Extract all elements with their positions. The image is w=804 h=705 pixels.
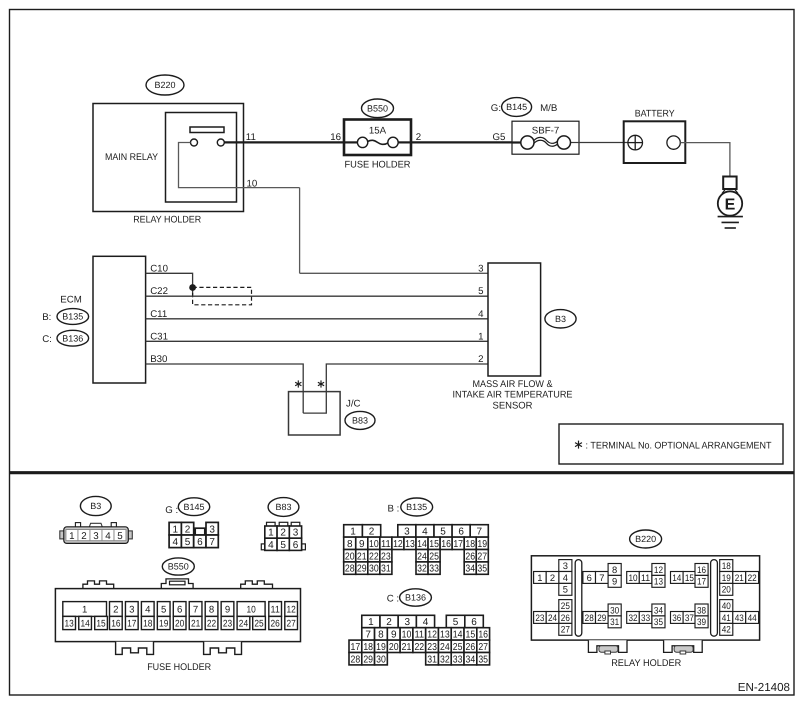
wire battery to ground (680, 143, 730, 177)
connector label B3 (bottom) (80, 496, 111, 515)
svg-text:15: 15 (685, 572, 694, 583)
svg-text:6: 6 (177, 604, 182, 615)
svg-text:23: 23 (427, 642, 437, 653)
svg-text:18: 18 (143, 618, 152, 629)
svg-text:27: 27 (478, 642, 488, 653)
svg-text:29: 29 (363, 654, 373, 665)
svg-text:11: 11 (414, 630, 424, 641)
wire fuse 2 to SBF G5 (thick) (411, 141, 512, 143)
svg-text:2: 2 (280, 528, 286, 539)
svg-text:B :: B : (388, 504, 400, 515)
svg-text:30: 30 (369, 564, 379, 575)
svg-text:11: 11 (641, 572, 650, 583)
svg-text:33: 33 (641, 612, 650, 623)
svg-text:8: 8 (378, 630, 384, 641)
svg-text:19: 19 (159, 618, 168, 629)
svg-text:18: 18 (363, 642, 373, 653)
wire C22 to MAF 5 (146, 295, 488, 297)
svg-text:27: 27 (561, 624, 570, 635)
svg-text:14: 14 (453, 630, 463, 641)
svg-text:12: 12 (427, 630, 437, 641)
svg-text:1: 1 (368, 617, 374, 628)
svg-text:FUSE HOLDER: FUSE HOLDER (345, 160, 411, 171)
svg-text:10: 10 (369, 539, 379, 550)
svg-text:21: 21 (191, 618, 200, 629)
connector label B220 (bottom) (630, 530, 662, 548)
svg-text:21: 21 (357, 551, 367, 562)
svg-text:2: 2 (478, 354, 483, 365)
battery minus terminal (667, 136, 680, 149)
svg-text:5: 5 (161, 604, 166, 615)
svg-text:22: 22 (748, 572, 757, 583)
svg-text:C:: C: (42, 334, 52, 345)
svg-text:3: 3 (209, 524, 215, 535)
svg-text:: TERMINAL No. OPTIONAL ARRANG: : TERMINAL No. OPTIONAL ARRANGEMENT (586, 441, 772, 452)
svg-text:17: 17 (453, 539, 463, 550)
svg-text:16: 16 (441, 539, 451, 550)
svg-text:4: 4 (268, 540, 274, 551)
svg-text:1: 1 (478, 331, 483, 342)
wire B30 to J/C (146, 364, 304, 413)
svg-text:34: 34 (466, 654, 476, 665)
svg-text:16: 16 (330, 132, 341, 143)
svg-text:16: 16 (111, 618, 120, 629)
svg-text:20: 20 (389, 642, 399, 653)
connector B83 drawing (261, 522, 305, 551)
svg-text:24: 24 (548, 612, 557, 623)
svg-text:B550: B550 (367, 104, 388, 114)
svg-text:5: 5 (117, 531, 123, 542)
wire C31 to MAF 1 (146, 340, 488, 342)
svg-text:5: 5 (478, 286, 483, 297)
svg-text:6: 6 (293, 540, 299, 551)
svg-text:36: 36 (672, 612, 681, 623)
svg-text:3: 3 (293, 528, 299, 539)
svg-text:4: 4 (563, 572, 568, 583)
svg-text:3: 3 (404, 617, 410, 628)
svg-text:2: 2 (386, 617, 392, 628)
svg-text:MAIN RELAY: MAIN RELAY (105, 152, 158, 163)
connector label B550 (bottom) (162, 558, 194, 575)
connector label B220 (146, 75, 184, 95)
svg-text:19: 19 (376, 642, 386, 653)
svg-text:26: 26 (561, 612, 570, 623)
wire C11 to MAF 4 (146, 318, 488, 320)
svg-text:26: 26 (271, 618, 280, 629)
svg-text:19: 19 (477, 539, 487, 550)
svg-text:7: 7 (209, 537, 215, 548)
svg-text:26: 26 (466, 642, 476, 653)
svg-text:22: 22 (414, 642, 424, 653)
svg-text:7: 7 (599, 572, 604, 583)
svg-text:1: 1 (537, 572, 542, 583)
svg-text:B136: B136 (405, 593, 426, 603)
svg-text:2: 2 (369, 527, 375, 538)
svg-text:8: 8 (347, 539, 353, 550)
svg-text:C11: C11 (150, 309, 167, 320)
svg-text:3: 3 (404, 527, 410, 538)
svg-text:ECM: ECM (60, 295, 82, 306)
wire relay pin 10 vertical drop (299, 188, 301, 274)
svg-text:9: 9 (612, 576, 617, 587)
svg-text:34: 34 (465, 564, 475, 575)
svg-text:11: 11 (271, 604, 280, 615)
battery plus terminal (628, 135, 643, 150)
svg-text:4: 4 (105, 531, 111, 542)
svg-text:35: 35 (654, 616, 663, 627)
svg-text:35: 35 (477, 564, 487, 575)
svg-text:25: 25 (429, 551, 439, 562)
svg-text:FUSE HOLDER: FUSE HOLDER (147, 662, 211, 673)
relay contact right (217, 139, 224, 146)
svg-text:31: 31 (427, 654, 437, 665)
svg-text:30: 30 (610, 604, 619, 615)
main relay U1 box (166, 113, 237, 203)
junction dot (189, 284, 196, 291)
svg-text:44: 44 (748, 612, 757, 623)
ECM box (93, 256, 146, 383)
svg-text:7: 7 (476, 527, 482, 538)
svg-text:RELAY HOLDER: RELAY HOLDER (611, 658, 681, 669)
svg-text:M/B: M/B (540, 103, 557, 114)
svg-text:C22: C22 (150, 286, 168, 297)
svg-text:G :: G : (165, 505, 178, 516)
fuse holder B550 drawing (55, 579, 300, 655)
fuse symbol 15A (344, 141, 357, 143)
svg-text:25: 25 (254, 618, 263, 629)
svg-text:22: 22 (369, 551, 379, 562)
SBF-7 fuse box (512, 121, 579, 154)
svg-text:5: 5 (280, 540, 286, 551)
svg-text:6: 6 (587, 572, 592, 583)
svg-text:32: 32 (440, 654, 450, 665)
svg-text:11: 11 (381, 539, 391, 550)
svg-text:5: 5 (440, 527, 446, 538)
svg-text:27: 27 (287, 618, 296, 629)
svg-text:C :: C : (387, 594, 399, 605)
svg-text:11: 11 (246, 132, 256, 143)
svg-text:27: 27 (477, 551, 487, 562)
svg-text:5: 5 (185, 537, 191, 548)
svg-text:43: 43 (735, 612, 744, 623)
svg-text:SENSOR: SENSOR (493, 400, 533, 411)
svg-text:BATTERY: BATTERY (635, 109, 675, 120)
svg-text:18: 18 (722, 560, 731, 571)
svg-text:G5: G5 (493, 132, 506, 143)
svg-text:13: 13 (440, 630, 450, 641)
svg-text:1: 1 (268, 528, 274, 539)
svg-text:29: 29 (357, 564, 367, 575)
svg-text:1: 1 (82, 604, 87, 615)
svg-text:13: 13 (654, 576, 663, 587)
svg-text:B145: B145 (183, 502, 204, 512)
svg-text:13: 13 (65, 618, 74, 629)
svg-text:C31: C31 (150, 331, 168, 342)
svg-text:14: 14 (672, 572, 681, 583)
svg-text:28: 28 (345, 564, 355, 575)
svg-text:J/C: J/C (346, 399, 361, 410)
svg-text:B135: B135 (62, 312, 83, 322)
svg-text:23: 23 (535, 612, 544, 623)
relay coil (190, 127, 224, 133)
svg-text:33: 33 (453, 654, 463, 665)
svg-text:B:: B: (42, 312, 51, 323)
svg-text:10: 10 (247, 178, 258, 189)
svg-text:3: 3 (129, 604, 134, 615)
svg-text:31: 31 (381, 564, 391, 575)
connector label B83 (345, 411, 375, 429)
svg-text:35: 35 (478, 654, 488, 665)
svg-text:28: 28 (585, 612, 594, 623)
svg-text:20: 20 (345, 551, 355, 562)
svg-text:32: 32 (628, 612, 637, 623)
svg-text:5: 5 (453, 617, 459, 628)
svg-text:4: 4 (422, 527, 428, 538)
svg-text:3: 3 (93, 531, 99, 542)
svg-text:7: 7 (193, 604, 198, 615)
connector label B83 (bottom) (268, 498, 299, 517)
svg-text:24: 24 (417, 551, 427, 562)
svg-text:2: 2 (550, 572, 555, 583)
svg-text:RELAY HOLDER: RELAY HOLDER (133, 215, 201, 226)
svg-text:31: 31 (610, 616, 619, 627)
svg-text:42: 42 (722, 624, 731, 635)
svg-text:3: 3 (478, 263, 483, 274)
svg-text:INTAKE AIR TEMPERATURE: INTAKE AIR TEMPERATURE (453, 389, 574, 400)
wire relay pin 10 internal (179, 143, 300, 188)
asterisk terminal marks (297, 380, 299, 387)
svg-text:20: 20 (175, 618, 184, 629)
svg-text:7: 7 (365, 630, 371, 641)
svg-text:SBF-7: SBF-7 (532, 126, 559, 137)
svg-text:15A: 15A (369, 125, 387, 136)
svg-text:EN-21408: EN-21408 (738, 681, 790, 694)
svg-text:B83: B83 (275, 502, 291, 512)
svg-text:29: 29 (597, 612, 606, 623)
svg-text:4: 4 (423, 617, 429, 628)
svg-text:28: 28 (351, 654, 361, 665)
svg-text:B3: B3 (90, 501, 101, 511)
svg-text:10: 10 (246, 604, 255, 615)
svg-text:33: 33 (429, 564, 439, 575)
connector label B3 (545, 310, 576, 328)
svg-text:30: 30 (376, 654, 386, 665)
svg-text:17: 17 (127, 618, 136, 629)
svg-text:2: 2 (113, 604, 118, 615)
wire C10 (146, 273, 193, 296)
svg-text:21: 21 (735, 572, 744, 583)
svg-text:18: 18 (465, 539, 475, 550)
svg-text:B30: B30 (150, 354, 168, 365)
relay contact left (191, 139, 198, 146)
svg-text:23: 23 (223, 618, 232, 629)
svg-text:B136: B136 (62, 333, 83, 343)
svg-text:E: E (725, 196, 736, 213)
svg-text:15: 15 (429, 539, 439, 550)
svg-text:39: 39 (697, 616, 706, 627)
svg-text:12: 12 (287, 604, 296, 615)
svg-text:6: 6 (471, 617, 477, 628)
svg-text:8: 8 (612, 564, 617, 575)
svg-text:4: 4 (478, 309, 484, 320)
svg-text:5: 5 (563, 584, 568, 595)
svg-text:B220: B220 (154, 80, 175, 90)
svg-text:34: 34 (654, 604, 663, 615)
wire relay 11 to fuse 16 (thick) (224, 141, 344, 143)
svg-text:21: 21 (402, 642, 412, 653)
svg-text:10: 10 (402, 630, 412, 641)
junction connector J/C box (289, 392, 341, 435)
svg-text:4: 4 (172, 537, 178, 548)
svg-text:2: 2 (416, 132, 421, 143)
svg-text:8: 8 (209, 604, 214, 615)
svg-text:41: 41 (722, 612, 731, 623)
relay holder box (93, 104, 244, 212)
svg-text:12: 12 (393, 539, 403, 550)
svg-text:9: 9 (391, 630, 397, 641)
svg-text:37: 37 (685, 612, 694, 623)
svg-text:16: 16 (697, 564, 706, 575)
connector B136 grid (349, 615, 490, 665)
svg-text:26: 26 (465, 551, 475, 562)
svg-text:23: 23 (381, 551, 391, 562)
svg-text:40: 40 (722, 600, 731, 611)
svg-text:2: 2 (185, 524, 191, 535)
wire SBF-7 to battery (579, 142, 628, 144)
svg-text:B135: B135 (406, 502, 427, 512)
relay holder B220 drawing (531, 556, 759, 654)
note box (559, 424, 783, 464)
svg-text:B3: B3 (555, 314, 566, 324)
optional connector dashed box (193, 287, 252, 304)
MAF sensor box (488, 263, 541, 376)
svg-text:6: 6 (458, 527, 464, 538)
svg-text:9: 9 (225, 604, 230, 615)
svg-text:2: 2 (81, 531, 86, 542)
svg-text:15: 15 (466, 630, 476, 641)
svg-text:C10: C10 (150, 263, 168, 274)
svg-text:17: 17 (351, 642, 361, 653)
svg-text:16: 16 (478, 630, 488, 641)
fuse holder box B550 (344, 120, 411, 156)
svg-text:15: 15 (96, 618, 105, 629)
svg-text:1: 1 (350, 527, 356, 538)
svg-text:4: 4 (145, 604, 151, 615)
svg-text:9: 9 (359, 539, 365, 550)
svg-text:1: 1 (172, 524, 178, 535)
svg-text:B145: B145 (506, 102, 527, 112)
svg-text:6: 6 (197, 537, 203, 548)
svg-text:14: 14 (417, 539, 427, 550)
svg-text:14: 14 (80, 618, 90, 629)
svg-text:19: 19 (722, 572, 731, 583)
svg-text:1: 1 (69, 531, 74, 542)
section divider (10, 471, 795, 474)
connector label B550 (362, 99, 394, 118)
svg-text:24: 24 (440, 642, 450, 653)
svg-text:13: 13 (405, 539, 415, 550)
svg-text:25: 25 (561, 600, 570, 611)
svg-text:22: 22 (207, 618, 216, 629)
svg-text:B550: B550 (168, 562, 189, 572)
wire relay10 to MAF 3 (300, 272, 488, 274)
svg-text:32: 32 (417, 564, 427, 575)
svg-text:17: 17 (697, 576, 706, 587)
svg-text:12: 12 (654, 564, 663, 575)
svg-text:10: 10 (628, 572, 637, 583)
ground symbol E (723, 177, 736, 190)
svg-text:3: 3 (563, 560, 568, 571)
svg-text:38: 38 (697, 604, 706, 615)
connector B145 drawing (169, 522, 218, 548)
svg-text:B83: B83 (352, 416, 368, 426)
fuse symbol SBF-7 (512, 141, 521, 143)
svg-text:25: 25 (453, 642, 463, 653)
connector B135 grid (344, 525, 489, 575)
svg-text:G:: G: (491, 103, 501, 114)
wire J/C to MAF 2 (303, 364, 488, 413)
svg-text:B220: B220 (635, 534, 656, 544)
svg-text:24: 24 (239, 618, 249, 629)
svg-text:20: 20 (722, 584, 731, 595)
connector B3 drawing (60, 523, 133, 544)
